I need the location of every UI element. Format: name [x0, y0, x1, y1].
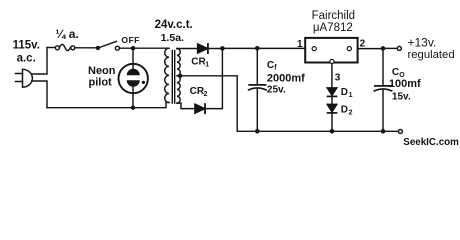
wire node down to CR2 [205, 48, 223, 108]
label 115v. a.c. [13, 39, 40, 64]
fuse F1 [55, 44, 74, 50]
svg-text:+13v.: +13v. [408, 35, 437, 49]
capacitor CO [374, 86, 391, 91]
svg-text:2: 2 [204, 91, 208, 98]
label +13v. regulated [408, 35, 455, 61]
terminal + output [397, 46, 401, 50]
svg-text:1.5a.: 1.5a. [161, 32, 184, 44]
svg-text:a.c.: a.c. [17, 52, 36, 64]
wire D2 to bottom rail [331, 113, 333, 131]
node rectifier output [220, 46, 225, 51]
wire regulator out to CO [358, 48, 383, 50]
neon pilot lamp [119, 64, 148, 93]
wire plug top to fuse [32, 48, 47, 75]
svg-text:D: D [341, 104, 348, 115]
wire plug bottom down [32, 81, 47, 108]
plug P1 [16, 69, 33, 87]
transformer T1 primary winding [165, 48, 169, 102]
label Neon pilot [88, 65, 116, 88]
svg-text:1: 1 [349, 92, 353, 99]
wire top rail node to CF [222, 47, 257, 49]
wire CO top [382, 48, 384, 86]
wire secondary bottom to CR2 anode [177, 103, 195, 109]
transformer T1 core [172, 51, 174, 104]
svg-text:Fairchild: Fairchild [312, 10, 355, 22]
node neon bottom junction [131, 106, 135, 110]
svg-text:μA7812: μA7812 [313, 22, 353, 34]
label D2 [341, 104, 353, 116]
node D2 bottom [330, 129, 335, 134]
wire to fuse [47, 47, 55, 49]
label Fairchild uA7812 [312, 10, 355, 34]
svg-text:f: f [274, 65, 277, 72]
label OFF [121, 35, 139, 45]
node center tap [178, 74, 182, 78]
svg-text:regulated: regulated [408, 49, 455, 61]
svg-text:15v.: 15v. [392, 91, 411, 102]
node CF top [255, 46, 260, 51]
wire primary bottom rail [47, 102, 169, 107]
svg-text:C: C [267, 60, 274, 71]
wire CO bottom [382, 90, 384, 131]
watermark SeekIC.com [403, 137, 459, 148]
node neon top junction [131, 46, 135, 50]
wire bottom rail [237, 130, 398, 132]
transformer T1 secondary winding [177, 49, 180, 104]
svg-text:24v.c.t.: 24v.c.t. [155, 19, 193, 31]
svg-text:D: D [341, 87, 348, 98]
svg-text:C: C [392, 67, 399, 78]
wire CF to regulator [257, 47, 305, 49]
diode CR2 [195, 104, 205, 113]
label pin 2 [360, 38, 366, 49]
node CO bottom [381, 129, 386, 134]
capacitor CF [249, 85, 267, 90]
wire pin 3 down [331, 64, 333, 88]
label 24v.c.t. 1.5a. [155, 19, 193, 44]
label pin 3 [335, 73, 341, 84]
svg-text:3: 3 [335, 73, 341, 84]
wire center tap to bottom rail [177, 76, 237, 132]
regulator U1 uA7812 [305, 38, 357, 64]
switch S1 OFF [96, 41, 120, 50]
wire CR1 to node [208, 48, 222, 50]
wire to + output terminal [383, 47, 397, 49]
wire neon bottom [132, 93, 134, 108]
svg-text:SeekIC.com: SeekIC.com [403, 137, 459, 148]
diode CR1 [198, 44, 208, 53]
wire D1 to D2 [331, 96, 333, 104]
svg-text:pilot: pilot [89, 76, 113, 88]
svg-text:2: 2 [360, 38, 366, 49]
wire secondary top to CR1 [177, 48, 198, 50]
svg-text:115v.: 115v. [13, 39, 40, 51]
svg-text:OFF: OFF [121, 35, 139, 45]
label pin 1 [297, 39, 303, 50]
label D1 [341, 87, 353, 99]
wire neon top [132, 48, 134, 64]
wire CF bottom [256, 89, 258, 132]
diode D1 [327, 88, 337, 97]
terminal - output [398, 130, 402, 134]
label Co 100mf 15v. [389, 67, 421, 102]
svg-text:25v.: 25v. [267, 84, 286, 95]
label Cf 2000mf 25v. [267, 60, 305, 95]
svg-text:2: 2 [349, 109, 353, 116]
svg-text:100mf: 100mf [389, 78, 421, 90]
svg-text:Neon: Neon [88, 65, 116, 77]
diode D2 [327, 104, 337, 113]
label CR2 [190, 86, 208, 98]
wire fuse to switch [75, 47, 97, 49]
svg-text:1: 1 [297, 39, 303, 50]
node CF bottom [255, 129, 260, 134]
wire CF top [256, 48, 258, 85]
node CO top [381, 46, 386, 51]
label 1/4 a. [55, 27, 78, 41]
wire switch to transformer [119, 47, 169, 49]
svg-text:1: 1 [205, 62, 209, 69]
svg-text:¼ a.: ¼ a. [55, 27, 78, 41]
svg-text:2000mf: 2000mf [267, 72, 305, 84]
label CR1 [191, 57, 209, 69]
